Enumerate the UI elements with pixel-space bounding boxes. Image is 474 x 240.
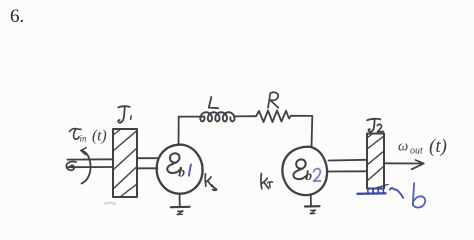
blue pointer squiggle xyxy=(390,188,403,198)
label tau_in(t) xyxy=(70,128,107,145)
shaft e_b2 to J2 (two lines) xyxy=(329,159,368,162)
rotation arrow for tau_in xyxy=(81,151,91,184)
label J1 xyxy=(118,106,129,107)
faint scan smudge xyxy=(105,202,115,205)
svg-text:(t): (t) xyxy=(429,136,447,157)
label k_b xyxy=(204,174,207,186)
label e_b2 (script e, b, blue 2) xyxy=(293,159,307,179)
resistor R xyxy=(256,111,291,123)
omega_out arrow xyxy=(384,162,422,164)
label k_tau xyxy=(260,174,263,189)
svg-text:(t): (t) xyxy=(92,128,107,145)
blue label b xyxy=(413,183,414,206)
shaft J1 to e_b1 (two lines) xyxy=(137,157,158,159)
wire from R to corner and down to e_b2 xyxy=(291,116,312,148)
svg-text:b: b xyxy=(305,168,312,183)
svg-text:6.: 6. xyxy=(10,6,24,27)
ground under e_b1 xyxy=(179,194,181,207)
ground under e_b2 xyxy=(310,195,312,206)
inertia block J2 (hatched) xyxy=(367,134,384,189)
top-left horizontal wire xyxy=(179,116,203,118)
blue ground line under rollers xyxy=(358,192,386,195)
shaft end curl xyxy=(66,162,76,171)
left input shaft (two lines) xyxy=(68,158,114,160)
blue bearing rollers under J2 xyxy=(368,188,384,193)
svg-text:out: out xyxy=(410,146,423,157)
svg-text:in: in xyxy=(80,134,88,144)
svg-text:b: b xyxy=(178,164,185,179)
svg-text:ω: ω xyxy=(398,139,408,155)
label R xyxy=(268,92,278,108)
inductor L xyxy=(200,112,234,121)
wire from e_b1 top to corner xyxy=(178,117,180,145)
label L xyxy=(209,97,218,108)
inertia block J1 (hatched) xyxy=(113,129,137,197)
label J2 xyxy=(367,119,380,120)
motor circle e_b2 xyxy=(282,147,327,195)
label e_b1 (script e, b, blue 1) xyxy=(167,153,181,173)
generator circle e_b1 xyxy=(157,145,203,194)
wire between L and R xyxy=(234,115,256,117)
